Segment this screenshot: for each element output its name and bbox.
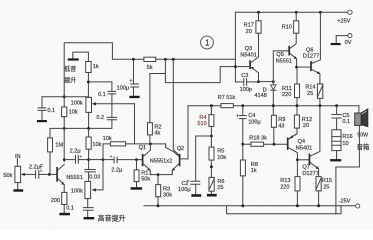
resistor R1 50k xyxy=(131,160,151,190)
transistor Q1 (N5551x2 left) xyxy=(139,144,151,175)
wire treble pot top tap to 10k line xyxy=(103,144,166,160)
resistor R6 25 xyxy=(207,177,225,196)
capacitor C5 0.1 zobel xyxy=(332,106,350,130)
svg-text:提升: 提升 xyxy=(64,77,76,85)
wire bass pot wiper drop xyxy=(134,104,136,144)
node R10 top xyxy=(295,11,298,14)
svg-text:D1277: D1277 xyxy=(303,53,319,59)
resistor 1k (bass boost) xyxy=(86,62,99,98)
capacitor 0.1 input shunt with ground xyxy=(37,97,55,122)
svg-text:R15: R15 xyxy=(322,178,332,184)
node 1k bottom xyxy=(87,81,90,84)
transistor N5551 input stage xyxy=(49,164,82,184)
wire feedback/output line xyxy=(188,105,359,107)
capacitor C4 100u xyxy=(236,106,261,145)
wire tone node to treble return node xyxy=(89,159,103,161)
svg-text:100μ: 100μ xyxy=(178,187,191,193)
svg-text:+: + xyxy=(129,78,132,84)
resistor R5 10k xyxy=(209,136,226,177)
ground 200 xyxy=(59,213,70,216)
svg-text:0.1: 0.1 xyxy=(98,92,106,98)
svg-text:100μ: 100μ xyxy=(248,119,261,125)
transistor Q4 N5401 xyxy=(288,134,313,160)
svg-text:R13: R13 xyxy=(280,178,290,184)
svg-text:R11: R11 xyxy=(282,86,292,92)
node treble return xyxy=(102,158,105,161)
node R17 top xyxy=(257,11,260,14)
node diode bottom / R9 top xyxy=(272,104,275,107)
svg-text:Q1: Q1 xyxy=(139,145,146,151)
capacitor 2.2u coupling (to diff pair) xyxy=(103,154,142,173)
svg-text:100k: 100k xyxy=(71,189,83,195)
node tone input xyxy=(87,158,90,161)
node R9 bottom junction xyxy=(273,143,276,146)
wire 1M branch xyxy=(50,128,64,138)
svg-text:10k: 10k xyxy=(92,142,101,148)
transistor Q2 (N5551x2 right) xyxy=(172,146,188,175)
potentiometer 100k (bass) xyxy=(71,97,135,129)
circled number 1 xyxy=(201,36,214,49)
node R15 bottom xyxy=(317,204,320,207)
svg-text:510: 510 xyxy=(197,121,206,127)
svg-text:Q5: Q5 xyxy=(276,52,283,58)
svg-text:0.1: 0.1 xyxy=(66,206,74,212)
node C4 top xyxy=(241,104,244,107)
wire C2 branch xyxy=(196,136,212,181)
resistor R11 220 xyxy=(282,67,300,106)
resistor 10k (bass pot bottom leg) xyxy=(86,128,102,159)
svg-text:220: 220 xyxy=(282,92,291,98)
svg-text:R10: R10 xyxy=(282,25,292,31)
wire main line continues to Q collector xyxy=(63,117,65,162)
node Q4 collector / Q7 base xyxy=(296,158,299,161)
svg-text:0.2: 0.2 xyxy=(96,115,104,121)
svg-text:D1277: D1277 xyxy=(302,171,318,177)
node R4 top xyxy=(210,104,213,107)
potentiometer 100k treble xyxy=(71,160,103,208)
svg-text:2.2μ: 2.2μ xyxy=(111,168,122,174)
svg-text:C4: C4 xyxy=(248,113,255,119)
svg-text:10: 10 xyxy=(342,141,348,147)
svg-text:25: 25 xyxy=(323,185,329,191)
svg-text:R9: R9 xyxy=(278,117,285,123)
svg-text:1k: 1k xyxy=(93,64,99,70)
svg-text:-25V: -25V xyxy=(339,198,351,204)
input terminal IN xyxy=(15,154,21,167)
resistor R7 51k feedback xyxy=(218,95,236,108)
svg-text:100μ: 100μ xyxy=(117,86,130,92)
node Q5 emitter / Q6 base xyxy=(295,66,298,69)
node Q3 base riser junction xyxy=(234,65,237,68)
wire front-end supply line (5k rail) xyxy=(112,58,235,60)
svg-text:Q2: Q2 xyxy=(177,146,184,152)
wire left branch top link xyxy=(64,43,112,107)
svg-text:R7 51k: R7 51k xyxy=(218,95,236,101)
capacitor C3 100p xyxy=(235,73,258,93)
svg-text:R2: R2 xyxy=(154,124,161,130)
node main line y128 xyxy=(63,127,66,130)
node R2 feed tap xyxy=(164,58,167,61)
svg-text:+: + xyxy=(40,169,43,174)
node R3 bottom xyxy=(157,204,160,207)
svg-text:R14: R14 xyxy=(305,85,315,91)
transistor Q3 N5401 xyxy=(235,33,258,81)
svg-text:4148: 4148 xyxy=(254,93,266,99)
transistor Q5 N5551 xyxy=(273,33,297,67)
svg-text:10k: 10k xyxy=(217,155,226,161)
svg-text:+: + xyxy=(110,154,113,159)
node output C5 xyxy=(335,104,338,107)
svg-text:4k: 4k xyxy=(154,131,160,137)
svg-text:10k: 10k xyxy=(103,136,112,142)
node R13 bottom xyxy=(296,204,299,207)
svg-text:0V: 0V xyxy=(345,40,352,46)
svg-text:43: 43 xyxy=(278,123,284,129)
svg-text:1: 1 xyxy=(205,39,210,48)
svg-text:100p: 100p xyxy=(240,87,252,93)
svg-text:高音提升: 高音提升 xyxy=(98,214,126,223)
svg-text:R8: R8 xyxy=(251,162,258,168)
svg-text:1M: 1M xyxy=(55,142,63,148)
wire speaker return xyxy=(336,125,360,213)
capacitor 0.2 (bass) xyxy=(64,115,116,128)
wire Q3 base loop from R2 feed xyxy=(165,67,235,83)
wire -25V rail xyxy=(144,205,356,207)
node R2 bottom / Q1 collector xyxy=(149,143,152,146)
svg-text:+: + xyxy=(187,178,190,183)
capacitor C2 100u xyxy=(178,178,201,196)
capacitor 0.1 (bass boost) xyxy=(98,91,116,117)
wire common emitter bus xyxy=(150,174,172,176)
node R1 tap xyxy=(135,158,138,161)
wire 1k bottom to tone caps xyxy=(88,82,112,91)
resistor R17 20 xyxy=(244,12,262,35)
svg-text:+: + xyxy=(80,154,83,159)
resistor R13 220 xyxy=(280,160,300,206)
svg-text:25: 25 xyxy=(307,91,313,97)
svg-text:N5401: N5401 xyxy=(240,53,256,59)
svg-text:R1: R1 xyxy=(141,170,148,176)
capacitor 100u decoupling xyxy=(117,59,140,98)
svg-text:N5551x2: N5551x2 xyxy=(150,158,172,164)
resistor R3 30k xyxy=(156,175,173,206)
node output R14 xyxy=(319,104,322,107)
node Q2 collector feed tap xyxy=(172,58,175,61)
svg-text:Q4: Q4 xyxy=(298,139,305,145)
node C3 / Q3 emitter xyxy=(257,80,260,83)
svg-text:220: 220 xyxy=(280,185,289,191)
diode D 4148 xyxy=(254,82,276,106)
svg-text:R6: R6 xyxy=(217,179,224,185)
terminal 0V xyxy=(331,34,352,46)
node diode top xyxy=(272,80,275,83)
resistor R16 10 zobel xyxy=(330,130,352,162)
svg-text:50k: 50k xyxy=(3,173,12,179)
resistor 5k (supply dropper) xyxy=(144,57,156,71)
wire to diode branch xyxy=(259,81,274,83)
svg-text:0.1: 0.1 xyxy=(47,108,55,114)
resistor R12 20 xyxy=(289,106,312,139)
svg-text:C3: C3 xyxy=(241,73,248,79)
svg-text:0.1: 0.1 xyxy=(342,119,350,125)
svg-text:N5551: N5551 xyxy=(276,59,292,65)
svg-text:25: 25 xyxy=(217,185,223,191)
node R4 bottom xyxy=(210,135,213,138)
capacitor 0.1 treble ground leg xyxy=(66,206,94,220)
wire lower return rail xyxy=(227,206,341,214)
svg-text:R12: R12 xyxy=(302,117,312,123)
resistor R8 1k xyxy=(240,144,258,206)
node collector/coupling xyxy=(63,158,66,161)
transistor Q7 D1277 xyxy=(297,106,320,177)
svg-text:1k: 1k xyxy=(251,168,257,174)
svg-text:R16: R16 xyxy=(342,134,352,140)
svg-text:R17: R17 xyxy=(244,23,254,29)
node main line y97 xyxy=(63,95,66,98)
svg-text:30k: 30k xyxy=(163,193,172,199)
resistor R9 43 xyxy=(271,106,285,145)
svg-text:R5: R5 xyxy=(217,149,224,155)
resistor 200 emitter xyxy=(51,185,67,213)
svg-text:+25V: +25V xyxy=(337,19,350,25)
svg-text:R18 3k: R18 3k xyxy=(249,136,267,142)
node R5/R6 xyxy=(210,165,213,168)
resistor 1M xyxy=(48,138,64,175)
node pot bottom xyxy=(87,127,90,130)
svg-text:0.03: 0.03 xyxy=(89,174,100,180)
bass boost switch box 低音提升 xyxy=(64,52,88,85)
resistor R4 510 xyxy=(197,106,214,136)
node 100u decoupling tap xyxy=(132,58,135,61)
terminal -25V xyxy=(339,198,360,208)
wire diode riser to Q5 base xyxy=(272,51,274,82)
svg-text:200: 200 xyxy=(51,198,60,204)
node R8 bottom xyxy=(241,204,244,207)
resistor 10k interstage xyxy=(103,136,126,146)
svg-text:N5551: N5551 xyxy=(66,175,82,181)
node Q6 collector top xyxy=(319,11,322,14)
svg-text:+: + xyxy=(236,113,239,119)
node output R11 xyxy=(296,104,299,107)
svg-text:低音: 低音 xyxy=(64,65,76,73)
svg-text:20: 20 xyxy=(303,123,309,129)
svg-text:10k: 10k xyxy=(69,109,78,115)
capacitor 2.2u coupling (to tone) xyxy=(64,148,88,163)
wire Q2 collector supply drop xyxy=(173,59,179,155)
capacitor 0.03 treble xyxy=(85,160,100,182)
wire node to pot top and to 0.1 input cap xyxy=(42,96,89,98)
wire top +25V rail xyxy=(235,11,347,13)
capacitor 2.2uF input coupling xyxy=(25,164,50,178)
svg-text:50k: 50k xyxy=(141,177,150,183)
wire to Q2 collector bracket xyxy=(166,144,174,152)
speaker 50W 音箱 xyxy=(355,106,370,151)
resistor R10 xyxy=(282,12,299,33)
svg-text:Q3: Q3 xyxy=(245,46,252,52)
node Q-in base xyxy=(48,173,51,176)
transistor Q6 D1277 xyxy=(297,12,321,84)
potentiometer 50k volume xyxy=(3,166,25,191)
resistor R2 4k xyxy=(148,59,166,144)
terminal +25V xyxy=(337,10,352,25)
svg-text:5k: 5k xyxy=(147,65,153,71)
svg-text:N5401: N5401 xyxy=(296,145,312,151)
wire +25V rail drop to front-end supply xyxy=(234,12,236,82)
node R18 left xyxy=(241,143,244,146)
svg-text:20: 20 xyxy=(246,29,252,35)
resistor R14 25 xyxy=(305,84,322,106)
resistor 10k (in main line) xyxy=(62,107,78,117)
svg-text:C5: C5 xyxy=(342,113,349,119)
svg-text:Q7: Q7 xyxy=(302,165,309,171)
svg-text:R3: R3 xyxy=(163,186,170,192)
wire Q2 base feedback riser xyxy=(187,106,189,159)
node common emitter xyxy=(157,173,160,176)
svg-text:音箱: 音箱 xyxy=(357,142,370,151)
resistor R15 25 xyxy=(316,177,332,206)
svg-text:100k: 100k xyxy=(71,101,83,107)
resistor R18 3k / wire to Q4 base xyxy=(243,136,287,147)
